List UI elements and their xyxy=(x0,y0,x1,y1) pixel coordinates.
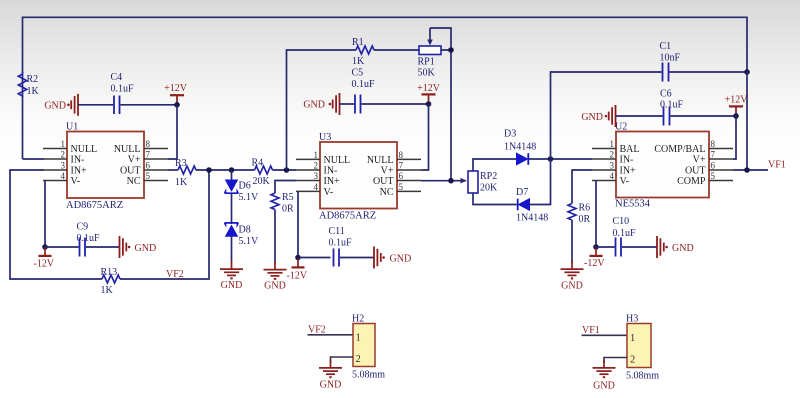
U1 pin 5 NC xyxy=(127,171,168,187)
svg-text:AD8675ARZ: AD8675ARZ xyxy=(319,211,376,222)
svg-text:COMP/BAL: COMP/BAL xyxy=(654,144,705,155)
svg-text:NULL: NULL xyxy=(324,155,351,166)
svg-text:7: 7 xyxy=(711,150,716,160)
wire H3 pin2 to ground xyxy=(604,358,627,363)
wire U1 pin4 to V- node xyxy=(44,181,46,248)
wire +12V node to U2 pin7 xyxy=(733,116,736,159)
wire RP1 right to U3 OUT rail xyxy=(441,50,451,181)
ground under R6 xyxy=(561,261,584,292)
svg-text:NC: NC xyxy=(380,187,394,198)
svg-text:OUT: OUT xyxy=(373,176,394,187)
svg-text:2: 2 xyxy=(610,150,615,160)
node U2 V+ supply xyxy=(733,113,739,119)
wire C4 to +12V node xyxy=(121,104,178,106)
connector H3 xyxy=(626,314,659,382)
svg-text:GND: GND xyxy=(44,100,66,111)
node R3/VF2 junction xyxy=(206,167,212,173)
svg-text:1: 1 xyxy=(610,139,615,149)
svg-text:GND: GND xyxy=(264,281,286,292)
svg-text:NULL: NULL xyxy=(367,155,394,166)
node U2 OUT junction xyxy=(744,167,750,173)
wire RP2 bottom to D7 xyxy=(473,193,517,205)
svg-text:-12V: -12V xyxy=(584,258,605,269)
svg-text:IN+: IN+ xyxy=(324,176,341,187)
U2 pin 1 BAL xyxy=(592,139,640,155)
svg-text:3: 3 xyxy=(61,161,66,171)
svg-text:2: 2 xyxy=(356,354,361,365)
U3 pin 5 NC xyxy=(380,182,421,198)
svg-text:GND: GND xyxy=(221,280,243,291)
wire top feedback rail xyxy=(23,17,748,159)
ground under H2 xyxy=(319,360,342,391)
U1 pin 7 V+ xyxy=(128,150,168,166)
capacitor C1 xyxy=(660,41,681,82)
op-amp U2 NE5534 xyxy=(615,122,709,210)
wire U2 OUT to VF1 xyxy=(733,169,768,171)
svg-text:1: 1 xyxy=(356,333,361,344)
wire C1 left leg xyxy=(551,72,662,159)
svg-text:GND: GND xyxy=(581,112,603,123)
U2 pin 6 OUT xyxy=(685,161,733,177)
svg-text:OUT: OUT xyxy=(685,166,706,177)
svg-text:IN-: IN- xyxy=(324,166,338,177)
wire C11 to GND battery xyxy=(340,257,374,259)
svg-text:GND: GND xyxy=(135,243,157,254)
wire D3 to U2 IN- xyxy=(529,158,592,160)
svg-text:RP1: RP1 xyxy=(418,57,435,68)
svg-text:5.1V: 5.1V xyxy=(239,192,260,203)
capacitor C4 xyxy=(111,72,135,114)
svg-text:1: 1 xyxy=(61,139,66,149)
node D6 junction xyxy=(229,167,235,173)
svg-text:V-: V- xyxy=(620,176,630,187)
svg-text:VF2: VF2 xyxy=(308,325,326,336)
wire VF2 to H2 pin1 xyxy=(308,334,354,336)
svg-text:OUT: OUT xyxy=(120,166,141,177)
svg-text:5.08mm: 5.08mm xyxy=(352,370,385,381)
svg-text:0R: 0R xyxy=(579,214,591,225)
svg-text:GND: GND xyxy=(390,253,412,264)
zener diode D6 xyxy=(225,180,260,203)
U3 pin 8 NULL xyxy=(367,150,421,166)
svg-text:IN-: IN- xyxy=(620,155,634,166)
ground battery symbol for C11 xyxy=(374,247,411,269)
ground under H3 xyxy=(593,360,616,392)
op-amp U1 AD8675ARZ xyxy=(66,122,144,212)
wire +12V node to U3 pin7 xyxy=(421,104,429,170)
svg-text:V+: V+ xyxy=(693,155,706,166)
svg-text:1K: 1K xyxy=(175,177,188,188)
capacitor C9 xyxy=(77,222,101,257)
U3 pin 6 OUT xyxy=(373,171,421,187)
svg-text:2: 2 xyxy=(314,161,319,171)
U2 pin 7 V+ xyxy=(693,150,733,166)
potentiometer RP1 xyxy=(418,28,442,79)
svg-text:7: 7 xyxy=(399,161,404,171)
svg-text:C4: C4 xyxy=(111,72,123,83)
svg-text:4: 4 xyxy=(61,171,66,181)
svg-text:V-: V- xyxy=(71,176,81,187)
wire R5 to ground xyxy=(274,210,276,264)
svg-text:GND: GND xyxy=(303,100,325,111)
svg-text:1: 1 xyxy=(630,333,635,344)
ground battery symbol for C6 xyxy=(581,105,615,127)
ground battery symbol for C10 xyxy=(657,236,694,258)
connector H2 xyxy=(352,314,385,381)
svg-text:AD8675ARZ: AD8675ARZ xyxy=(66,200,123,211)
svg-text:IN-: IN- xyxy=(71,155,85,166)
capacitor C11 xyxy=(329,226,353,267)
svg-text:C11: C11 xyxy=(329,226,345,237)
wire C9 to GND battery xyxy=(86,246,120,248)
diode D7 1N4148 xyxy=(516,187,548,224)
svg-text:GND: GND xyxy=(320,380,342,391)
svg-text:NC: NC xyxy=(127,176,141,187)
svg-text:10nF: 10nF xyxy=(660,53,681,64)
svg-text:1K: 1K xyxy=(101,285,114,296)
U1 pin 8 NULL xyxy=(114,139,168,155)
svg-text:8: 8 xyxy=(711,139,716,149)
svg-text:VF1: VF1 xyxy=(582,325,600,336)
resistor R1 xyxy=(352,37,374,67)
resistor R13 xyxy=(101,267,121,296)
svg-text:C10: C10 xyxy=(613,216,630,227)
svg-text:0.1uF: 0.1uF xyxy=(352,79,376,90)
svg-text:6: 6 xyxy=(146,161,151,171)
svg-text:2: 2 xyxy=(61,150,66,160)
power -12V (U3) xyxy=(287,259,308,282)
node C1/D3/D7 junction xyxy=(548,156,554,162)
capacitor C6 xyxy=(660,89,684,126)
U3 pin 2 IN- xyxy=(296,161,337,177)
ground battery symbol for C5 xyxy=(303,93,339,115)
svg-text:-12V: -12V xyxy=(287,271,308,282)
svg-text:0.1uF: 0.1uF xyxy=(613,228,637,239)
wire RP2 top to D3 xyxy=(473,159,517,171)
svg-text:+12V: +12V xyxy=(164,83,188,94)
svg-text:D7: D7 xyxy=(516,187,528,198)
node C1 right rail xyxy=(744,69,750,75)
wire C5 to +12V node xyxy=(362,103,429,105)
svg-text:5.1V: 5.1V xyxy=(239,236,260,247)
svg-text:-12V: -12V xyxy=(34,259,55,270)
svg-text:+12V: +12V xyxy=(417,83,441,94)
wire D8 to ground xyxy=(231,236,233,262)
resistor R6 xyxy=(568,203,591,226)
wire right rail down to U2 OUT xyxy=(746,72,748,170)
svg-text:C6: C6 xyxy=(660,89,672,100)
wire V- node to C9 xyxy=(45,246,79,248)
node U1 V+ supply xyxy=(174,102,180,108)
wire C10 to GND battery xyxy=(622,246,657,248)
wire GND to C5 xyxy=(340,103,355,105)
resistor R4 xyxy=(252,158,273,188)
wire D6 top xyxy=(231,170,233,180)
power +12V (U3) xyxy=(417,83,441,104)
svg-text:3: 3 xyxy=(610,161,615,171)
svg-text:R13: R13 xyxy=(101,267,118,278)
wire GND to C4 xyxy=(78,104,113,106)
wire +12V node to U1 pin7 xyxy=(168,105,177,159)
svg-text:V-: V- xyxy=(324,187,334,198)
U2 pin 5 COMP xyxy=(677,171,733,187)
svg-text:2: 2 xyxy=(630,355,635,366)
resistor R5 xyxy=(271,192,294,215)
U1 pin 3 IN+ xyxy=(43,161,87,177)
wire R3 to R4 xyxy=(196,169,255,171)
wire U3 IN+ to R5 xyxy=(275,181,296,194)
svg-text:V+: V+ xyxy=(128,155,141,166)
capacitor C5 xyxy=(352,68,376,114)
wire U3 OUT to RP2 xyxy=(421,180,466,182)
wire C1 to right rail xyxy=(670,71,748,73)
wire feedback R1 rail xyxy=(287,50,357,170)
svg-text:4: 4 xyxy=(610,171,615,181)
svg-text:5: 5 xyxy=(711,171,716,181)
svg-text:GND: GND xyxy=(672,243,694,254)
svg-text:1K: 1K xyxy=(352,56,365,67)
svg-text:20K: 20K xyxy=(253,176,271,187)
svg-text:0.1uF: 0.1uF xyxy=(329,238,353,249)
wire U1 OUT to R3 xyxy=(168,169,178,171)
svg-text:1N4148: 1N4148 xyxy=(516,213,548,224)
svg-text:GND: GND xyxy=(561,281,583,292)
svg-text:0R: 0R xyxy=(282,204,294,215)
U1 pin 4 V- xyxy=(43,171,80,187)
svg-text:NE5534: NE5534 xyxy=(615,199,651,210)
wire R6 to ground xyxy=(571,220,573,263)
node U2 V- supply xyxy=(593,244,599,250)
svg-text:5: 5 xyxy=(399,182,404,192)
svg-text:C5: C5 xyxy=(352,68,364,79)
svg-text:1: 1 xyxy=(314,150,319,160)
wire C6 to +12V node xyxy=(671,115,737,117)
svg-text:D8: D8 xyxy=(239,225,251,236)
wire VF1 to H3 pin1 xyxy=(582,334,628,336)
svg-text:VF2: VF2 xyxy=(166,269,184,280)
svg-text:NULL: NULL xyxy=(114,144,141,155)
wire GND to C6 xyxy=(616,115,663,117)
wire U2 IN+ to R6 xyxy=(572,170,592,204)
wire D6 to D8 xyxy=(231,194,233,225)
svg-text:C1: C1 xyxy=(660,41,672,52)
svg-text:6: 6 xyxy=(711,161,716,171)
U3 pin 1 NULL xyxy=(296,150,350,166)
svg-text:BAL: BAL xyxy=(620,144,640,155)
power +12V (U2) xyxy=(725,95,749,117)
wire U3 pin4 to V- node xyxy=(297,191,299,257)
capacitor C10 xyxy=(613,216,637,257)
ground under D8 xyxy=(220,261,243,291)
power +12V (U1) xyxy=(164,83,188,105)
svg-text:50K: 50K xyxy=(418,68,436,79)
svg-text:R5: R5 xyxy=(282,192,294,203)
potentiometer RP2 xyxy=(461,171,499,194)
zener diode D8 xyxy=(225,223,260,247)
ground under R5 xyxy=(264,262,287,292)
wire H2 pin2 to ground xyxy=(331,357,354,363)
svg-text:0.1uF: 0.1uF xyxy=(111,84,135,95)
U1 pin 6 OUT xyxy=(120,161,168,177)
node RP1 right xyxy=(448,47,454,53)
U1 pin 1 NULL xyxy=(43,139,97,155)
node U3 V+ supply xyxy=(426,101,432,107)
U2 pin 4 V- xyxy=(592,171,629,187)
svg-text:20K: 20K xyxy=(480,183,498,194)
wire V- node to C10 xyxy=(596,246,615,248)
op-amp U3 AD8675ARZ xyxy=(319,132,397,222)
svg-text:IN+: IN+ xyxy=(620,166,637,177)
wire R13 to VF2 corner xyxy=(120,170,209,279)
wire D7 to node xyxy=(530,159,551,205)
svg-text:1K: 1K xyxy=(27,86,40,97)
node RP2 wiper junction xyxy=(448,178,454,184)
svg-text:5.08mm: 5.08mm xyxy=(626,371,659,382)
U3 pin 3 IN+ xyxy=(296,171,340,187)
U2 pin 3 IN+ xyxy=(592,161,636,177)
svg-text:C9: C9 xyxy=(77,222,89,233)
ground battery symbol for C4 xyxy=(44,94,78,116)
svg-text:GND: GND xyxy=(593,381,615,392)
node R1 feedback junction xyxy=(284,167,290,173)
ground battery symbol for C9 xyxy=(120,236,157,258)
wire V- node to C11 xyxy=(298,257,331,259)
svg-text:V+: V+ xyxy=(381,166,394,177)
U1 pin 2 IN- xyxy=(43,150,84,166)
resistor R2 xyxy=(18,72,39,97)
svg-text:8: 8 xyxy=(146,139,151,149)
power -12V (U1) xyxy=(34,247,55,270)
U2 pin 2 IN- xyxy=(592,150,633,166)
U3 pin 4 V- xyxy=(296,182,333,198)
node U1 V- supply xyxy=(42,244,48,250)
svg-text:VF1: VF1 xyxy=(768,160,786,171)
U2 pin 8 COMP/BAL xyxy=(654,139,733,155)
svg-text:R2: R2 xyxy=(27,74,39,85)
svg-text:4: 4 xyxy=(314,182,319,192)
svg-text:+12V: +12V xyxy=(725,95,749,106)
wire RP1 wiper loop xyxy=(430,28,451,50)
resistor R3 xyxy=(175,158,196,188)
svg-text:D6: D6 xyxy=(239,181,251,192)
diode D3 1N4148 xyxy=(504,129,536,165)
svg-text:5: 5 xyxy=(146,171,151,181)
svg-text:NULL: NULL xyxy=(71,144,98,155)
svg-text:COMP: COMP xyxy=(677,176,706,187)
svg-text:RP2: RP2 xyxy=(480,171,497,182)
svg-text:1N4148: 1N4148 xyxy=(504,142,536,153)
svg-text:3: 3 xyxy=(314,171,319,181)
svg-text:D3: D3 xyxy=(504,129,516,140)
svg-text:8: 8 xyxy=(399,150,404,160)
wire U1 pin3 loop to VF2 rail xyxy=(10,170,102,279)
wire R4 to U3 pin2 xyxy=(273,169,297,171)
svg-text:R6: R6 xyxy=(579,203,591,214)
svg-text:IN+: IN+ xyxy=(71,166,88,177)
node U3 V- supply xyxy=(295,255,301,261)
svg-text:7: 7 xyxy=(146,150,151,160)
U3 pin 7 V+ xyxy=(381,161,421,177)
wire U2 pin4 to V- node xyxy=(595,181,597,248)
svg-text:6: 6 xyxy=(399,171,404,181)
wire R2 to U1 pin2 xyxy=(23,158,45,160)
power -12V (U2) xyxy=(584,247,605,269)
wire R1 to RP1 xyxy=(374,49,419,51)
